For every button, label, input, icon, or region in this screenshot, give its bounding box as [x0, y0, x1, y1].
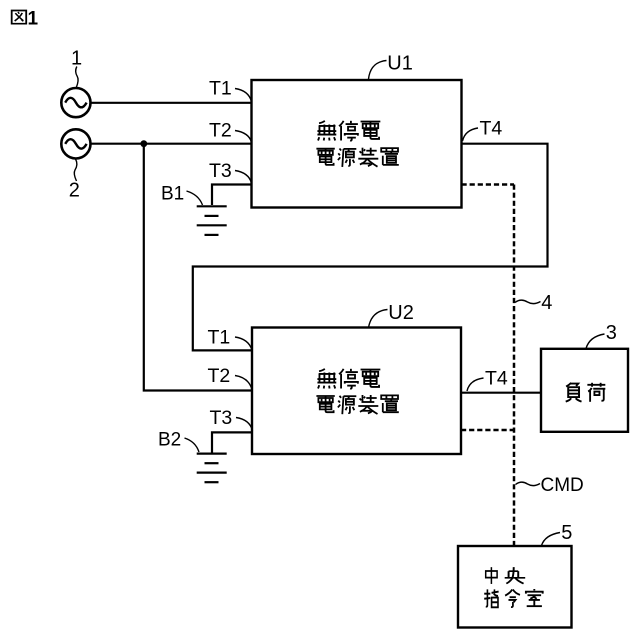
U2 text 電源装置	[316, 395, 398, 414]
svg-text:1: 1	[28, 9, 39, 30]
svg-text:4: 4	[541, 292, 552, 314]
control room box 5	[458, 546, 572, 628]
AC source 2	[61, 129, 90, 158]
svg-text:CMD: CMD	[541, 475, 584, 496]
svg-text:3: 3	[606, 322, 617, 344]
leader T2 U2	[235, 376, 252, 390]
load box 3	[541, 349, 628, 432]
leader T3 U1	[235, 171, 252, 184]
leader 4 squiggle	[515, 300, 541, 304]
leader T2 U1	[235, 131, 252, 143]
wire source1 to U1 T1	[91, 102, 252, 104]
svg-text:5: 5	[561, 522, 572, 544]
svg-text:T4: T4	[480, 117, 503, 139]
leader T4 U2	[467, 378, 484, 391]
svg-text:T1: T1	[209, 78, 232, 100]
leader CMD squiggle	[516, 482, 541, 486]
svg-text:T1: T1	[208, 327, 231, 349]
svg-text:B2: B2	[158, 430, 181, 451]
battery B1	[197, 206, 227, 235]
leader T1 U1	[235, 89, 252, 102]
leader U1	[369, 61, 387, 80]
svg-text:T2: T2	[209, 120, 232, 142]
AC source 1	[61, 88, 90, 117]
U1 text 電源装置	[316, 148, 398, 167]
junction dot	[140, 140, 147, 147]
leader 5	[542, 533, 561, 546]
battery B2	[197, 454, 227, 483]
UPS box U1	[252, 80, 462, 208]
dashed vertical line	[513, 185, 516, 547]
leader 1	[76, 67, 78, 88]
svg-text:1: 1	[71, 48, 82, 70]
leader U2	[369, 310, 388, 328]
dashed control line from U1	[462, 183, 515, 186]
svg-text:T3: T3	[210, 407, 233, 429]
box5 text 指令室	[484, 589, 542, 607]
wire junction down to U2 T2	[144, 144, 252, 391]
leader T1 U2	[235, 337, 252, 350]
leader B1	[187, 191, 203, 205]
svg-text:T4: T4	[485, 368, 508, 390]
leader 2	[74, 159, 77, 181]
svg-text:U2: U2	[388, 302, 414, 324]
svg-text:U1: U1	[387, 53, 413, 75]
wire source2 to U1 T2	[91, 143, 252, 145]
box5 text 中央	[486, 567, 526, 584]
leader 3	[586, 334, 605, 349]
leader T3 U2	[236, 418, 253, 431]
UPS box U2	[252, 328, 461, 455]
U1 text 無停電	[317, 121, 380, 141]
wire U1 T3 to battery B1	[212, 185, 252, 206]
U2 text 無停電	[317, 369, 380, 389]
svg-text:T3: T3	[209, 160, 232, 182]
svg-text:2: 2	[69, 180, 80, 202]
wire U2 T3 to battery B2	[212, 432, 252, 452]
figure label 図1	[12, 9, 39, 30]
wire U2 T4 to load box	[461, 392, 541, 394]
load text 負荷	[566, 383, 606, 402]
dashed control line from U2	[461, 429, 514, 432]
svg-text:T2: T2	[208, 365, 231, 387]
svg-text:B1: B1	[161, 183, 184, 204]
wire U1 T4 down-left to U2 T1	[193, 144, 548, 351]
leader T4 U1	[463, 128, 479, 141]
leader B2	[185, 438, 200, 452]
